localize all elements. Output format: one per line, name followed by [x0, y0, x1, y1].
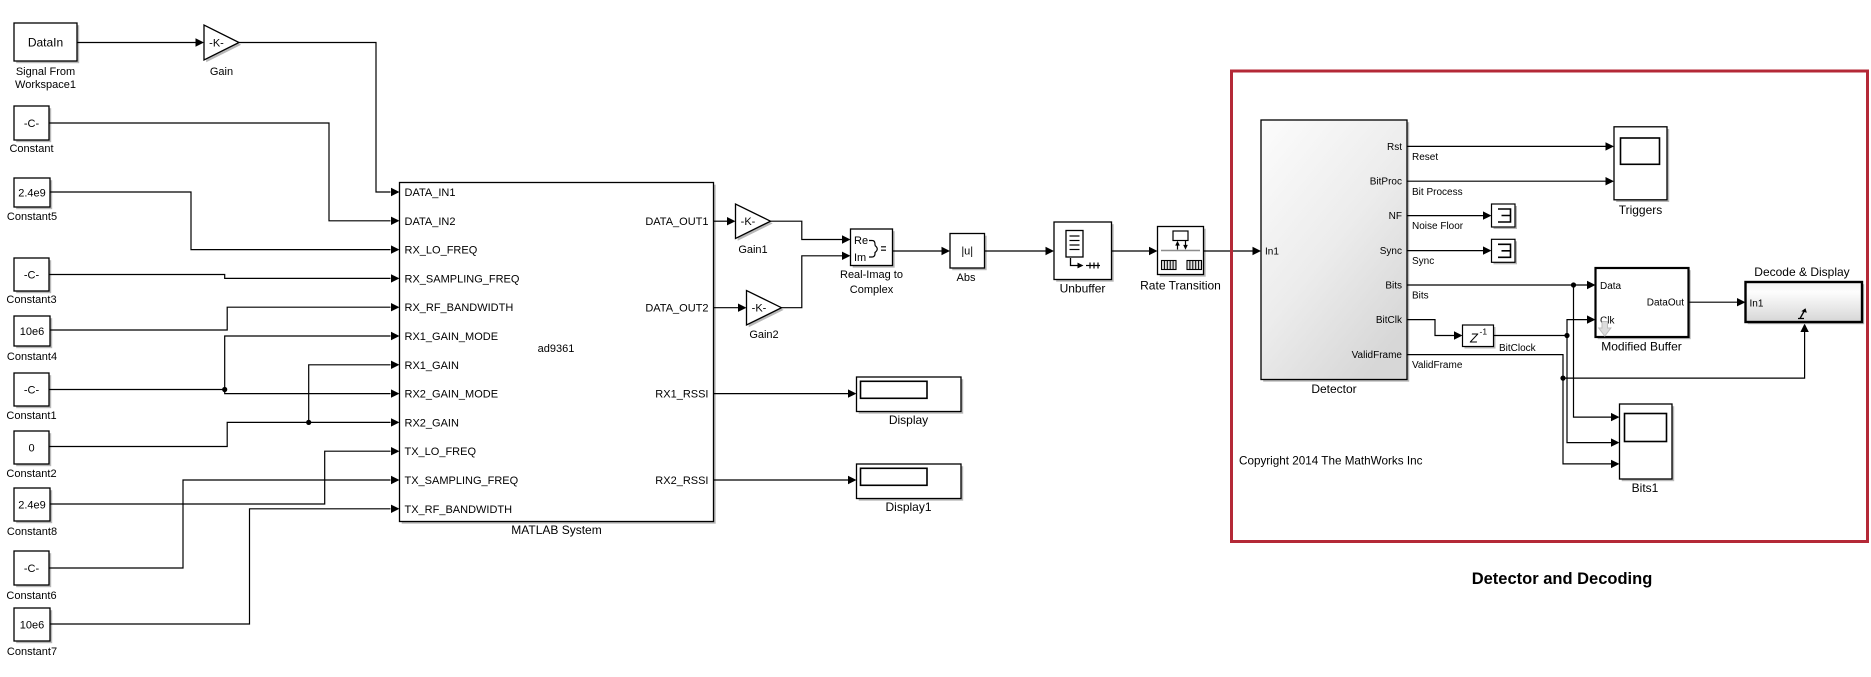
- gain Gain2: [747, 291, 784, 342]
- wire BitClock branch down to Bits1 input 2: [1567, 336, 1620, 447]
- svg-text:0: 0: [28, 442, 34, 454]
- wire Constant to DATA_IN2: [49, 123, 400, 225]
- wire DataOut to Decode In1: [1689, 298, 1746, 306]
- wire Gain to DATA_IN1: [239, 43, 400, 197]
- wire Constant5 to RX_LO_FREQ: [50, 192, 400, 254]
- wire Sync to terminator: [1407, 246, 1492, 254]
- svg-text:10e6: 10e6: [20, 619, 44, 631]
- svg-text:Constant6: Constant6: [6, 590, 56, 602]
- scope Triggers: [1614, 127, 1669, 217]
- svg-text:Bit Process: Bit Process: [1412, 187, 1463, 198]
- svg-text:Constant8: Constant8: [7, 526, 57, 538]
- svg-text:Triggers: Triggers: [1619, 203, 1663, 217]
- wire Unbuffer to Rate Transition: [1112, 247, 1158, 255]
- Real-Imag to Complex block: [840, 229, 903, 296]
- svg-text:RX2_RSSI: RX2_RSSI: [655, 475, 708, 487]
- svg-text:2.4e9: 2.4e9: [18, 499, 46, 511]
- svg-text:Rst: Rst: [1387, 142, 1402, 153]
- wire DATA_OUT2 to Gain2: [714, 304, 747, 312]
- svg-text:Signal From: Signal From: [16, 66, 75, 78]
- svg-text:DataIn: DataIn: [28, 35, 63, 49]
- constant Constant3 (-C-): [14, 258, 51, 293]
- wire Constant2 to RX2_GAIN: [49, 418, 400, 446]
- wire Constant8 to TX_LO_FREQ: [50, 447, 400, 504]
- constant Constant4 (10e6): [14, 316, 52, 348]
- svg-text:RX2_GAIN: RX2_GAIN: [405, 417, 459, 429]
- wire Real-Imag to Abs: [893, 247, 951, 255]
- svg-text:Gain1: Gain1: [738, 244, 767, 256]
- Modified Buffer block: [1596, 268, 1691, 354]
- Display1 block: [857, 464, 964, 514]
- svg-text:Decode & Display: Decode & Display: [1754, 265, 1849, 279]
- svg-text:DataOut: DataOut: [1647, 298, 1684, 309]
- svg-text:Detector: Detector: [1311, 382, 1356, 396]
- wire ValidFrame down to Bits1 input 3: [1407, 355, 1620, 469]
- svg-text:Im: Im: [854, 252, 866, 264]
- terminator Noise Floor: [1492, 204, 1518, 229]
- svg-text:Workspace1: Workspace1: [15, 79, 76, 91]
- wire Gain2 to Im input: [782, 252, 851, 308]
- svg-text:Bits: Bits: [1385, 281, 1402, 292]
- svg-text:Constant3: Constant3: [6, 294, 56, 306]
- svg-text:TX_LO_FREQ: TX_LO_FREQ: [405, 446, 477, 458]
- svg-text:RX_SAMPLING_FREQ: RX_SAMPLING_FREQ: [405, 273, 520, 285]
- red annotation box Detector and Decoding: [1232, 71, 1868, 542]
- svg-text:In1: In1: [1750, 299, 1764, 310]
- junction Constant2 branch: [306, 420, 311, 425]
- wire Rst to Triggers input 1: [1407, 142, 1614, 150]
- wire DataIn to Gain: [77, 38, 204, 46]
- wire BitClk to unit delay: [1407, 320, 1463, 340]
- svg-text:BitClk: BitClk: [1376, 315, 1403, 326]
- svg-text:BitProc: BitProc: [1370, 177, 1402, 188]
- svg-text:DATA_IN1: DATA_IN1: [405, 187, 456, 199]
- svg-text:-K-: -K-: [209, 38, 224, 50]
- wire RX2_RSSI to Display1: [714, 476, 857, 484]
- Rate Transition block: [1140, 227, 1221, 293]
- svg-text:Real-Imag to: Real-Imag to: [840, 269, 903, 281]
- svg-text:-1: -1: [1480, 327, 1488, 337]
- Abs block: [950, 234, 987, 271]
- svg-text:-C-: -C-: [24, 118, 40, 130]
- Unbuffer block: [1054, 222, 1114, 296]
- svg-text:RX1_GAIN: RX1_GAIN: [405, 360, 459, 372]
- wire Gain1 to Re input: [771, 221, 851, 244]
- svg-text:DATA_OUT2: DATA_OUT2: [645, 303, 708, 315]
- svg-text:ValidFrame: ValidFrame: [1352, 350, 1403, 361]
- svg-text:Constant4: Constant4: [7, 351, 57, 363]
- gain Gain: [204, 25, 241, 78]
- constant Constant6 (-C-): [14, 551, 51, 587]
- svg-text:Unbuffer: Unbuffer: [1060, 282, 1106, 296]
- Display block: [857, 377, 964, 427]
- svg-text:Constant1: Constant1: [6, 410, 56, 422]
- label Signal From Workspace1: [15, 66, 76, 91]
- wire Constant1 branch to RX2_GAIN_MODE: [225, 389, 400, 397]
- wire Constant6 to TX_SAMPLING_FREQ: [49, 476, 400, 568]
- Detector block: [1261, 120, 1409, 396]
- svg-text:Constant7: Constant7: [7, 646, 57, 658]
- svg-text:Bits1: Bits1: [1632, 481, 1659, 495]
- svg-text:DATA_IN2: DATA_IN2: [405, 216, 456, 228]
- svg-text:-C-: -C-: [24, 269, 40, 281]
- svg-text:Abs: Abs: [957, 272, 976, 284]
- svg-text:Constant2: Constant2: [6, 468, 56, 480]
- svg-text:Data: Data: [1600, 281, 1622, 292]
- svg-text:Display1: Display1: [885, 500, 931, 514]
- svg-text:BitClock: BitClock: [1499, 343, 1537, 354]
- unit delay block Z-1: [1463, 325, 1496, 349]
- svg-text:-K-: -K-: [741, 216, 756, 228]
- svg-text:RX_LO_FREQ: RX_LO_FREQ: [405, 245, 478, 257]
- MATLAB System block (ad9361): [400, 183, 716, 538]
- junction BitClock branch: [1564, 333, 1569, 338]
- wire Constant1 to RX1_GAIN_MODE: [49, 332, 400, 390]
- svg-text:-C-: -C-: [24, 563, 40, 575]
- svg-text:RX1_RSSI: RX1_RSSI: [655, 389, 708, 401]
- terminator Sync: [1492, 239, 1518, 264]
- svg-text:Constant5: Constant5: [7, 211, 57, 223]
- svg-text:-K-: -K-: [752, 303, 767, 315]
- constant Constant1 (-C-): [14, 373, 51, 408]
- svg-text:RX1_GAIN_MODE: RX1_GAIN_MODE: [405, 331, 499, 343]
- svg-text:Gain2: Gain2: [749, 329, 778, 341]
- svg-text:RX_RF_BANDWIDTH: RX_RF_BANDWIDTH: [405, 302, 514, 314]
- svg-text:Rate Transition: Rate Transition: [1140, 279, 1221, 293]
- svg-text:Sync: Sync: [1412, 256, 1434, 267]
- svg-text:DATA_OUT1: DATA_OUT1: [645, 216, 708, 228]
- svg-text:MATLAB System: MATLAB System: [511, 523, 601, 537]
- constant Constant8 (2.4e9): [14, 488, 52, 523]
- svg-text:NF: NF: [1389, 211, 1402, 222]
- svg-text:|u|: |u|: [961, 246, 973, 258]
- svg-text:Gain: Gain: [210, 66, 233, 78]
- svg-text:ValidFrame: ValidFrame: [1412, 360, 1463, 371]
- wire Bits to Modified Buffer Data: [1407, 281, 1596, 289]
- svg-text:Detector and Decoding: Detector and Decoding: [1472, 570, 1653, 588]
- svg-text:TX_SAMPLING_FREQ: TX_SAMPLING_FREQ: [405, 475, 519, 487]
- scope Bits1: [1620, 404, 1675, 495]
- wire BitProc to Triggers input 2: [1407, 177, 1614, 185]
- svg-text:10e6: 10e6: [20, 326, 44, 338]
- svg-text:2.4e9: 2.4e9: [18, 187, 46, 199]
- wire Abs to Unbuffer: [985, 247, 1055, 255]
- svg-text:Re: Re: [854, 235, 868, 247]
- svg-text:Display: Display: [889, 413, 928, 427]
- wire Bits branch down to Bits1 input 1: [1574, 285, 1620, 421]
- svg-text:Constant: Constant: [9, 143, 53, 155]
- constant Constant (-C-): [14, 106, 51, 142]
- gain Gain1: [736, 204, 773, 256]
- wire NF to terminator: [1407, 211, 1492, 219]
- constant Constant2 (0): [14, 431, 51, 466]
- svg-text:Modified Buffer: Modified Buffer: [1601, 340, 1682, 354]
- constant Constant5 (2.4e9): [14, 178, 52, 209]
- junction ValidFrame branch: [1560, 376, 1565, 381]
- svg-text:Z: Z: [1469, 331, 1479, 346]
- wire Constant2 branch to RX1_GAIN: [309, 361, 400, 423]
- svg-text:In1: In1: [1265, 247, 1279, 258]
- constant Constant7 (10e6): [14, 608, 52, 643]
- wire Rate Transition to Detector In1: [1204, 247, 1262, 255]
- wire Constant4 to RX_RF_BANDWIDTH: [50, 303, 400, 330]
- svg-text:ad9361: ad9361: [538, 343, 575, 355]
- Decode and Display block: [1746, 265, 1865, 324]
- source block DataIn (Signal From Workspace1): [14, 23, 79, 63]
- junction Bits branch: [1571, 282, 1576, 287]
- svg-text:RX2_GAIN_MODE: RX2_GAIN_MODE: [405, 389, 499, 401]
- svg-text:Complex: Complex: [850, 284, 894, 296]
- wire Constant7 to TX_RF_BANDWIDTH: [50, 505, 400, 624]
- svg-text:Reset: Reset: [1412, 152, 1438, 163]
- svg-text:Bits: Bits: [1412, 291, 1429, 302]
- svg-text:Copyright 2014 The MathWorks I: Copyright 2014 The MathWorks Inc: [1239, 455, 1423, 468]
- wire RX1_RSSI to Display: [714, 389, 857, 397]
- svg-text:TX_RF_BANDWIDTH: TX_RF_BANDWIDTH: [405, 504, 513, 516]
- svg-text:Noise Floor: Noise Floor: [1412, 221, 1464, 232]
- wire DATA_OUT1 to Gain1: [714, 217, 736, 225]
- wire ValidFrame branch to Decode trigger: [1563, 324, 1809, 379]
- svg-text:-C-: -C-: [24, 384, 40, 396]
- wire Constant3 to RX_SAMPLING_FREQ: [49, 274, 400, 282]
- wire unit delay to Modified Buffer Clk: [1494, 315, 1596, 335]
- junction Constant1 branch: [222, 387, 227, 392]
- svg-text:Sync: Sync: [1380, 246, 1402, 257]
